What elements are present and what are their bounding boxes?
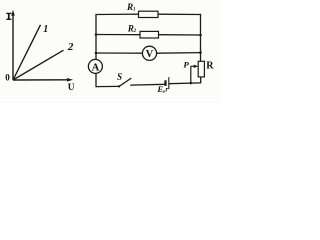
wire wiper tail vertical (190, 66, 192, 83)
wire top row left (95, 13, 139, 15)
switch S blade (119, 78, 131, 86)
wire right rail (200, 14, 202, 62)
graph line 2 (13, 50, 64, 80)
junction V row left (95, 52, 98, 55)
battery E,r short plate (164, 80, 166, 86)
svg-text:U: U (68, 83, 75, 93)
ammeter A (88, 59, 102, 73)
voltmeter V (142, 46, 156, 60)
wire R2 row right (159, 34, 202, 36)
resistor R1 (139, 11, 159, 17)
wire R2 row left (95, 34, 140, 36)
wire bottom left to switch (96, 85, 119, 87)
junction R2 row right (199, 34, 202, 37)
wire switch to battery (130, 83, 165, 86)
rheostat wiper arrow P (191, 65, 199, 68)
wire V row right (157, 52, 202, 55)
svg-text:0: 0 (5, 73, 10, 83)
wire V row left (95, 52, 142, 54)
rheostat R body (198, 61, 204, 77)
svg-text:P: P (183, 60, 189, 70)
svg-text:A: A (92, 62, 100, 73)
axis label I (6, 13, 11, 19)
wire top row right (158, 13, 201, 15)
svg-text:E,r: E,r (156, 84, 168, 94)
wire rheostat bottom lead (200, 77, 202, 84)
svg-text:V: V (146, 49, 154, 60)
svg-text:2: 2 (67, 41, 74, 53)
wire left rail top section (95, 15, 97, 60)
junction wiper tail (190, 82, 193, 85)
junction V row right (199, 51, 202, 54)
wire battery to rheostat bottom (169, 82, 201, 85)
battery E,r long plate (168, 77, 170, 89)
I axis (graph y-axis) (11, 10, 15, 80)
graph line 1 (13, 25, 41, 80)
svg-text:R: R (206, 61, 214, 72)
resistor R2 (140, 31, 159, 38)
junction R2 row left (95, 33, 98, 36)
U axis (graph x-axis) (13, 78, 73, 82)
wire left rail bottom section (95, 73, 97, 87)
switch S pivot (118, 85, 120, 87)
svg-text:S: S (117, 71, 122, 83)
svg-text:1: 1 (43, 24, 48, 35)
